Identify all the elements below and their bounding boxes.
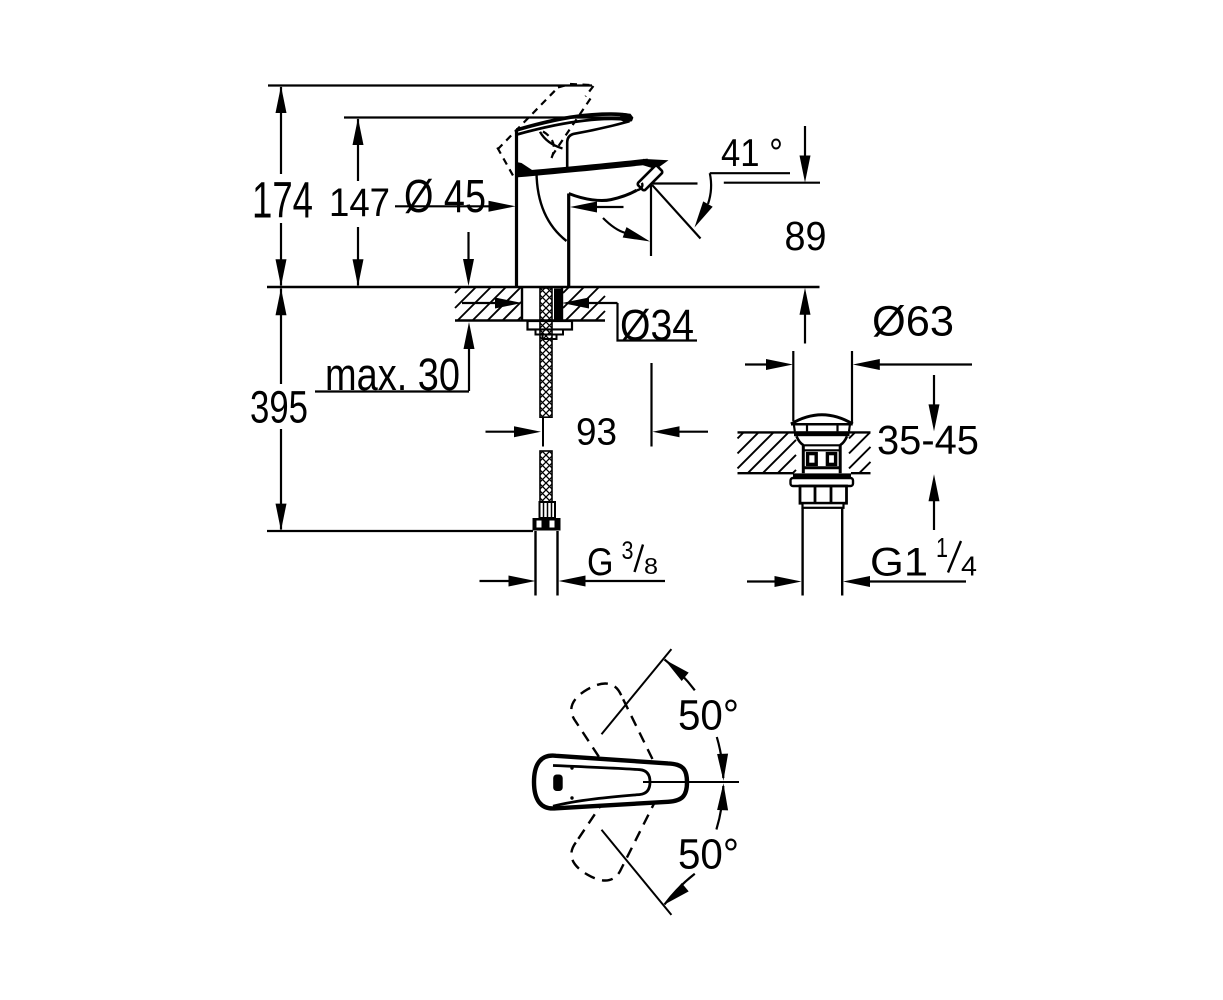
svg-text:Ø 45: Ø 45: [404, 170, 486, 222]
svg-text:4: 4: [961, 551, 977, 582]
svg-text:50°: 50°: [678, 831, 739, 879]
svg-text:1: 1: [936, 532, 948, 563]
svg-text:147: 147: [329, 181, 390, 225]
svg-text:41 °: 41 °: [721, 132, 783, 175]
svg-text:8: 8: [644, 553, 658, 579]
svg-text:Ø34: Ø34: [620, 301, 694, 350]
svg-text:3: 3: [622, 537, 634, 565]
svg-text:93: 93: [576, 412, 617, 454]
svg-text:395: 395: [250, 382, 308, 433]
svg-text:174: 174: [252, 172, 313, 229]
svg-text:Ø63: Ø63: [872, 298, 954, 346]
svg-text:89: 89: [785, 213, 827, 259]
svg-text:max. 30: max. 30: [325, 349, 460, 400]
svg-text:G1: G1: [870, 541, 928, 585]
svg-text:35-45: 35-45: [877, 417, 979, 463]
svg-text:G: G: [587, 541, 614, 584]
svg-text:50°: 50°: [678, 691, 739, 739]
